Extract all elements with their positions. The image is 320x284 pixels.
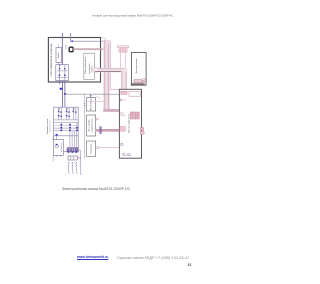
long vertical wire right of block bbox=[84, 94, 86, 159]
footer phone bbox=[117, 255, 189, 260]
wire: pink vertical B down from arrow wire bbox=[109, 41, 111, 89]
middle box: starter board bbox=[87, 115, 96, 136]
blue dots at connector bottom bbox=[68, 151, 70, 153]
verticals from bus to connector bbox=[69, 131, 71, 148]
wire: second vertical into lower block bbox=[64, 94, 66, 107]
thin pink wire with circle to panel bbox=[97, 147, 99, 149]
comp box blue contacts bbox=[59, 75, 61, 77]
wire stub above switch box bbox=[58, 44, 60, 47]
bottom box: contactor bbox=[87, 141, 96, 156]
wire: horizontal to fan and panel bbox=[65, 93, 119, 95]
svg-text:инвертора: инвертора bbox=[89, 63, 91, 74]
pink wires from T connector down to blob bbox=[120, 52, 122, 68]
jack: dark square connector bbox=[69, 47, 73, 52]
header line bbox=[92, 14, 173, 17]
tick down to fan box with arrow bbox=[90, 94, 92, 98]
plug body: 3-cell terminal bbox=[68, 156, 77, 160]
switch box bbox=[56, 48, 62, 63]
svg-text:Блок управления: Блок управления bbox=[85, 57, 87, 74]
panel circle 1 bbox=[120, 99, 122, 101]
small pink connector right of middle box bbox=[96, 118, 99, 120]
blue connector marks on descent bbox=[60, 88, 63, 90]
pink wide wash vertical P2 bbox=[103, 40, 110, 110]
SCR group 1 bbox=[58, 107, 61, 120]
pink elbow band down to panel bbox=[121, 70, 127, 89]
lower block: power board bbox=[54, 107, 79, 151]
capacitor columns with blue dots bbox=[60, 123, 78, 131]
pink faint horizontal near fan top bbox=[85, 101, 107, 103]
fan box bbox=[87, 98, 96, 111]
tall box: pedal connector board bbox=[131, 53, 146, 86]
svg-text:Плата управления инвертора: Плата управления инвертора bbox=[50, 43, 53, 76]
SCR group 2 bbox=[66, 107, 69, 120]
pink elbow into panel box bbox=[103, 109, 119, 112]
small pink circle right of plug bbox=[77, 157, 79, 159]
block: inverter power unit (big box) bbox=[48, 38, 100, 83]
panel component left mid2 bbox=[120, 127, 125, 132]
panel circle low bbox=[121, 143, 124, 146]
pink band from middle box to panel bbox=[96, 129, 120, 132]
bus wires in lower block bbox=[54, 119, 79, 121]
panel pink hatched block bbox=[130, 112, 139, 119]
svg-text:Силовая плата: Силовая плата bbox=[47, 118, 49, 134]
caption bbox=[62, 187, 130, 191]
wire: mains vertical into block left bbox=[61, 33, 63, 65]
tick marks on long wire bbox=[84, 103, 86, 105]
dark bar at tall box bottom bbox=[131, 83, 145, 85]
svg-text:L: L bbox=[65, 173, 66, 175]
panel inner top boxes bbox=[121, 91, 127, 94]
wires descending from big box bbox=[59, 81, 61, 84]
arrow on wire bbox=[70, 40, 73, 42]
ticks below sub-box bbox=[56, 155, 58, 157]
blue dot on block bottom bbox=[56, 134, 58, 136]
svg-text:выпрямителя: выпрямителя bbox=[50, 120, 52, 132]
SCR group 3 bbox=[73, 107, 76, 120]
svg-text:Блок заряда: Блок заряда bbox=[89, 119, 91, 131]
inner divider line of lower block bbox=[54, 135, 79, 137]
svg-text:Блок разъёмов: Блок разъёмов bbox=[136, 58, 138, 73]
svg-text:конденсаторов: конденсаторов bbox=[92, 119, 94, 133]
purple connector bar on pink band bbox=[99, 126, 101, 134]
pink band P1 from jack to right bbox=[73, 48, 106, 50]
cable wires down bbox=[68, 166, 70, 171]
tall box inner bottom box bbox=[134, 80, 142, 83]
output terminals bbox=[123, 153, 125, 155]
pink diagonal stub bbox=[96, 96, 100, 98]
wire: mains vertical 2 bbox=[70, 33, 72, 41]
cable slash marks (double dashes) bbox=[68, 162, 77, 166]
pink T connector top bbox=[117, 46, 128, 48]
torch connector right edge bbox=[140, 128, 143, 131]
wire: switch box to comp box bbox=[58, 62, 60, 64]
svg-text:Контактор: Контактор bbox=[90, 143, 92, 154]
wire stubs left of sub-box bbox=[52, 136, 54, 139]
pink curl at tall box bottom right bbox=[143, 78, 146, 82]
svg-text:Вентилятор: Вентилятор bbox=[90, 98, 92, 110]
panel mid pink component bbox=[120, 113, 123, 116]
comp box in big box bottom bbox=[56, 65, 69, 81]
wire: block bottom into sub-box bbox=[55, 136, 57, 140]
earth wire from right bbox=[78, 150, 82, 175]
hatched connector block bbox=[67, 148, 78, 152]
panel box (lower right) bbox=[119, 89, 141, 158]
comp box inner verticals bbox=[59, 65, 61, 81]
wire: pink elbow into panel top bbox=[110, 89, 119, 91]
comp box inner wires bbox=[57, 70, 67, 72]
footer link bbox=[77, 255, 108, 259]
wire end hooks bbox=[69, 172, 71, 174]
svg-text:Панель управления: Панель управления bbox=[129, 114, 131, 133]
wire: horizontal to right with arrow bbox=[71, 40, 111, 42]
svg-text:(IGBT): (IGBT) bbox=[92, 66, 94, 73]
svg-text:Switch: Switch bbox=[57, 52, 60, 59]
pink band P3 wash to elbow bbox=[98, 68, 127, 73]
pink connector boxlet on inner box edge bbox=[94, 68, 98, 72]
wire: thin pink from box corner bbox=[101, 37, 106, 39]
inner box: power module bbox=[84, 53, 95, 79]
page number bbox=[188, 263, 192, 267]
sub-box: aux transformer bbox=[53, 140, 63, 156]
svg-text:220В: 220В bbox=[66, 44, 68, 49]
